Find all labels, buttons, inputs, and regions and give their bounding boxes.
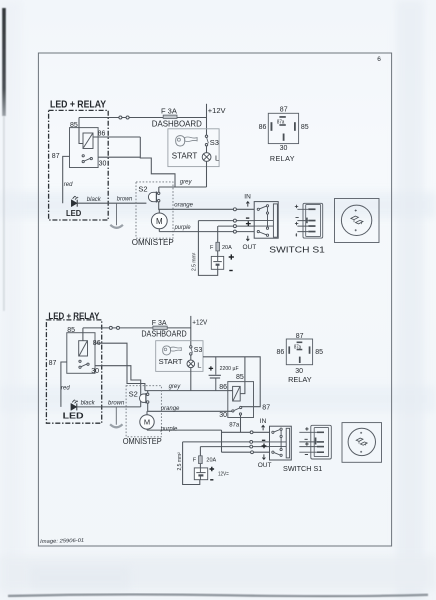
wire dashboard to relay 87 (+12V) (bottom) xyxy=(203,357,260,407)
supply bus wire with fuse (bottom) xyxy=(83,327,191,329)
wire orange from S2 to switch S1 xyxy=(159,202,255,209)
wire grey net horizontal xyxy=(159,186,207,188)
svg-text:87: 87 xyxy=(49,360,57,367)
switch S3 (top) xyxy=(205,135,208,146)
battery return leg (bottom) xyxy=(183,442,200,485)
svg-text:85: 85 xyxy=(315,349,323,356)
wall panel switch (top) xyxy=(335,199,380,243)
battery return leg wire xyxy=(198,221,217,276)
battery minus mark (top) xyxy=(229,270,232,272)
capacitor plus mark xyxy=(209,366,213,370)
svg-text:IN: IN xyxy=(244,193,251,200)
lamp L (bottom) xyxy=(187,360,195,368)
wire orange from S2 to relay contact 30 (bottom) xyxy=(148,403,232,411)
battery plus mark (bottom) xyxy=(210,467,215,472)
wire battery plus to switch (bottom) xyxy=(200,446,269,448)
minus polarity mark xyxy=(246,217,249,219)
switch S2 plug symbol (top) xyxy=(148,192,160,203)
battery plus mark (top) xyxy=(229,254,234,259)
wire pin87 of K1 to LED anode (red) xyxy=(63,156,70,203)
svg-text:85: 85 xyxy=(236,374,244,381)
connector J1 pins (top) xyxy=(306,208,315,232)
connector J1 polarity marks (top) xyxy=(295,205,299,237)
svg-text:black: black xyxy=(81,401,96,407)
wire coil top to supply bus (bottom) xyxy=(82,328,84,341)
svg-text:2,5 mm²: 2,5 mm² xyxy=(177,452,183,471)
connector circle on minus wire (bottom) xyxy=(250,441,253,444)
svg-text:87: 87 xyxy=(280,107,288,114)
svg-text:DASHBOARD: DASHBOARD xyxy=(141,330,186,339)
wire pin87 of K2 to LED (red) xyxy=(61,362,67,407)
svg-text:2.5 mm²: 2.5 mm² xyxy=(192,252,198,271)
legend pin slots (bottom) xyxy=(288,342,310,364)
svg-text:86: 86 xyxy=(219,384,227,391)
ignition key icon (top) xyxy=(176,136,197,146)
wire S3 to lamp (bottom) xyxy=(190,355,192,360)
switch S1 box (top) xyxy=(254,202,278,239)
svg-text:orange: orange xyxy=(161,406,180,412)
wire grey net horizontal (bottom) xyxy=(145,390,228,392)
top supply bus wire with fuse F3A xyxy=(79,117,207,119)
scan edge shadow left xyxy=(2,8,6,116)
plus polarity mark (bottom) xyxy=(262,444,267,449)
OMNISTEP dotted enclosure (bottom) xyxy=(126,386,161,437)
fuse F2 20A body (top) xyxy=(216,242,220,251)
fuse F1 3A body xyxy=(163,115,177,118)
svg-text:START: START xyxy=(159,357,183,366)
fuse F4 20A body (bottom) xyxy=(199,456,203,464)
relay K1 contact xyxy=(82,155,92,163)
relay K2 contact xyxy=(79,360,89,368)
svg-text:M: M xyxy=(144,418,150,427)
svg-text:L: L xyxy=(197,361,201,370)
svg-text:+12V: +12V xyxy=(192,319,207,326)
arrow up IN (bottom) xyxy=(262,425,265,430)
svg-text:OMNISTEP: OMNISTEP xyxy=(132,237,174,247)
svg-text:orange: orange xyxy=(174,203,193,209)
ignition key icon (bottom) xyxy=(163,346,182,355)
wire grey into coil (pin 86) xyxy=(228,390,233,392)
svg-text:purple: purple xyxy=(160,427,178,433)
svg-text:S3: S3 xyxy=(210,138,219,147)
switch S1 inner bar (top) xyxy=(273,204,277,237)
wire black from LED cathode to S2 xyxy=(77,202,146,204)
svg-text:SWITCH S1: SWITCH S1 xyxy=(269,244,325,254)
svg-text:red: red xyxy=(61,385,70,391)
fuse F3 3A body (bottom) xyxy=(153,326,167,329)
connector circle on purple wire xyxy=(233,230,236,233)
svg-text:87a: 87a xyxy=(277,119,285,125)
svg-text:+12V: +12V xyxy=(208,106,226,115)
wire 85 feed to coil (bottom relay K3) xyxy=(240,357,245,394)
connector circle on IN wire xyxy=(250,431,253,434)
svg-text:LED: LED xyxy=(66,209,82,218)
wire lamp to grey net xyxy=(206,161,208,187)
svg-text:85: 85 xyxy=(67,327,75,334)
plus polarity mark xyxy=(246,221,251,226)
svg-text:RELAY: RELAY xyxy=(288,375,312,384)
arrow down OUT (bottom) xyxy=(262,454,265,459)
svg-text:86: 86 xyxy=(259,124,267,131)
minus polarity mark (bottom) xyxy=(262,439,265,441)
svg-text:IN: IN xyxy=(260,418,267,425)
LED D2 (bottom) xyxy=(71,399,78,410)
wire S3 to lamp xyxy=(206,146,208,153)
ground symbol (top) xyxy=(110,225,123,228)
lamp L (top) xyxy=(202,153,211,162)
inline connector pair on supply bus xyxy=(119,116,122,119)
relay pinout legend square (bottom) xyxy=(286,339,312,365)
relay K2 coil xyxy=(79,341,88,356)
step icon in panel switch (bottom) xyxy=(356,438,367,445)
wire battery plus to switch S1 xyxy=(218,225,254,227)
switch S1 inner bar (bottom) xyxy=(286,428,289,458)
connector circle on plus wire xyxy=(233,225,236,228)
dash-dot enclosure LED+RELAY (top) xyxy=(49,110,109,220)
relay K1 coil xyxy=(83,133,93,149)
step icon in panel switch (top) xyxy=(351,216,363,224)
wire purple from motor to switch S1 xyxy=(159,231,254,233)
dashboard box (bottom) xyxy=(156,341,203,372)
svg-text:30: 30 xyxy=(219,412,227,419)
legend pin slots (top) xyxy=(271,116,296,141)
wire pin30 of K1 xyxy=(98,156,140,158)
svg-text:F 3A: F 3A xyxy=(161,107,177,116)
svg-text:SWITCH S1: SWITCH S1 xyxy=(283,464,322,473)
svg-text:S2: S2 xyxy=(138,185,147,194)
svg-text:12V=: 12V= xyxy=(218,472,229,478)
connector circle on plus wire (bottom) xyxy=(250,445,253,448)
svg-text:OUT: OUT xyxy=(258,462,272,469)
svg-text:2200 µF: 2200 µF xyxy=(220,366,240,372)
wire lamp down to grey net (bottom) xyxy=(190,368,192,391)
motor M (top) xyxy=(151,209,167,231)
dash-dot enclosure LED+RELAY (bottom) xyxy=(46,320,101,423)
svg-text:85: 85 xyxy=(301,124,309,131)
battery B1 (top) xyxy=(211,256,223,269)
svg-text:20A: 20A xyxy=(222,245,232,251)
ground drop (bottom) xyxy=(115,407,117,425)
svg-text:LED: LED xyxy=(63,410,84,420)
svg-text:30: 30 xyxy=(280,145,288,152)
svg-text:brown: brown xyxy=(117,197,133,203)
connector J2 pins (bottom) xyxy=(315,432,324,454)
wall panel switch (bottom) xyxy=(342,423,382,463)
page frame xyxy=(38,53,391,546)
svg-text:20A: 20A xyxy=(206,458,216,464)
svg-text:30: 30 xyxy=(99,161,107,168)
svg-text:85: 85 xyxy=(70,122,78,129)
wire S2 top pin to grey (bottom) xyxy=(147,391,149,393)
svg-text:brown: brown xyxy=(108,401,125,407)
switch S1 box (bottom) xyxy=(270,426,292,460)
dashboard box (top) xyxy=(168,129,219,167)
arrow down OUT (top) xyxy=(246,236,249,241)
svg-text:S2: S2 xyxy=(129,389,138,398)
wire purple drop and IN feed (bottom) xyxy=(222,430,270,452)
inline connector pair on supply bus (bottom) xyxy=(109,326,112,329)
wire fuse to battery xyxy=(217,251,219,257)
battery B2 (bottom) xyxy=(194,468,207,480)
ground symbol (bottom) xyxy=(110,424,122,427)
svg-text:RELAY: RELAY xyxy=(270,154,295,163)
svg-text:OUT: OUT xyxy=(243,244,257,251)
svg-text:S3: S3 xyxy=(194,347,203,354)
svg-text:86: 86 xyxy=(98,130,106,137)
svg-text:grey: grey xyxy=(180,179,193,185)
OMNISTEP dotted enclosure (top) xyxy=(136,182,173,238)
connector J2 polarity marks xyxy=(305,427,309,454)
svg-text:black: black xyxy=(87,197,102,203)
svg-text:OMNISTEP: OMNISTEP xyxy=(123,436,162,446)
switch S1 internals (top) xyxy=(254,205,273,237)
wire battery minus to switch S1 xyxy=(198,220,254,222)
relay K3 contact xyxy=(232,406,242,415)
relay K3 coil xyxy=(233,386,241,401)
wire fuse to battery (bottom) xyxy=(199,464,201,468)
connector circle on minus wire xyxy=(233,219,236,222)
scan edge shadow bottom xyxy=(8,594,428,596)
svg-text:purple: purple xyxy=(174,225,192,231)
wire staircase pin86 net to grey net xyxy=(140,137,175,187)
connector J1 wire stubs (top) xyxy=(297,209,308,231)
LED D1 (top) xyxy=(71,196,78,207)
svg-text:30: 30 xyxy=(91,368,99,375)
switch S2 plug symbol (bottom) xyxy=(140,393,149,403)
wire S2 top pin to grey net xyxy=(158,187,160,192)
svg-text:red: red xyxy=(64,182,73,188)
connector circle on wire 4 xyxy=(251,451,254,454)
svg-text:87a: 87a xyxy=(229,423,240,429)
svg-text:6: 6 xyxy=(377,56,381,63)
switch S3 (bottom) xyxy=(190,346,193,355)
svg-text:grey: grey xyxy=(169,384,182,390)
svg-text:87a: 87a xyxy=(294,345,301,351)
relay K3 box xyxy=(228,382,254,418)
wire pin86 of K1 xyxy=(93,136,140,138)
relay K2 box (bottom) xyxy=(67,333,95,374)
svg-text:DASHBOARD: DASHBOARD xyxy=(152,118,202,128)
arrow up IN (top) xyxy=(246,202,249,207)
wire purple from motor (bottom) xyxy=(147,429,222,431)
svg-text:LED + RELAY: LED + RELAY xyxy=(50,100,106,111)
svg-text:L: L xyxy=(215,153,219,162)
connector J2 wire stubs (bottom) xyxy=(299,432,317,452)
wire black from LED to staircase (bottom) xyxy=(77,406,141,408)
wire fuse leg to plus wire xyxy=(217,226,219,242)
wire battery minus to switch (bottom) xyxy=(183,441,270,443)
+12V vertical feed (top) xyxy=(206,104,208,135)
svg-text:87: 87 xyxy=(296,333,304,340)
wire pin30 of K2 staircase to brown net xyxy=(95,366,141,407)
ground drop (top) xyxy=(116,203,118,225)
svg-text:86: 86 xyxy=(277,349,285,356)
battery minus mark (bottom) xyxy=(210,479,213,481)
connector circle on orange wire xyxy=(233,208,236,211)
wire fuse leg (bottom) xyxy=(199,447,201,456)
connector J2 (bottom) xyxy=(311,425,332,459)
svg-text:Image: 25906-01: Image: 25906-01 xyxy=(40,538,84,545)
wire pin85 of K1 to top bus xyxy=(79,118,83,144)
wire pin86 of K2 staircase to grey net xyxy=(95,343,145,390)
capacitor C1 2200uF (bottom) xyxy=(209,357,221,391)
svg-text:87: 87 xyxy=(262,404,270,411)
svg-text:START: START xyxy=(172,151,198,160)
relay K1 box (top) xyxy=(70,128,99,168)
relay pinout legend square (top) xyxy=(268,113,298,143)
wire 87a down to IN wire xyxy=(240,415,242,432)
svg-text:M: M xyxy=(156,217,163,226)
+12V vertical feed (bottom) xyxy=(190,316,192,346)
connector J1 (top) xyxy=(303,203,323,238)
motor M (bottom) xyxy=(140,411,154,430)
svg-text:87: 87 xyxy=(52,153,60,160)
switch S1 internals (bottom) xyxy=(270,428,287,456)
